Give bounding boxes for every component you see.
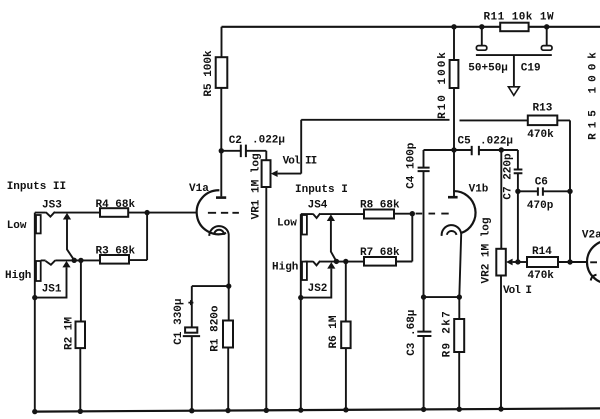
wire V1b cathode down bbox=[459, 234, 461, 410]
wire R13 right down bbox=[557, 120, 570, 262]
wire Inputs II low jack line bbox=[34, 213, 36, 412]
svg-text:JS2: JS2 bbox=[308, 283, 328, 295]
capacitor C1 plus plate bbox=[185, 327, 197, 332]
wire V2a grid dash bbox=[590, 261, 597, 263]
resistor R1 bbox=[223, 321, 233, 348]
capacitor C4 bbox=[418, 168, 430, 172]
tube V1b envelope bbox=[453, 191, 475, 233]
svg-text:Low: Low bbox=[7, 220, 27, 232]
capacitor C5 bbox=[472, 146, 479, 155]
resistor R2 bbox=[76, 322, 86, 349]
resistor R8 bbox=[364, 210, 394, 219]
wire C2 left bbox=[221, 150, 240, 152]
wire JS1 switch to ground line bbox=[35, 267, 67, 297]
node C6 right bbox=[567, 189, 572, 194]
svg-text:High: High bbox=[5, 270, 31, 282]
wire bottom ground rail bbox=[35, 408, 600, 411]
wire V1a grid dashes bbox=[208, 212, 239, 214]
wire C2 to VR1 bbox=[246, 151, 266, 160]
wiper arrow VR2 bbox=[506, 259, 513, 266]
svg-text:VR1 1M log: VR1 1M log bbox=[250, 153, 262, 219]
capacitor C1 bottom plate bbox=[183, 335, 200, 337]
wire JS3 switch bbox=[67, 220, 74, 261]
svg-text:C4 100p: C4 100p bbox=[406, 142, 418, 189]
resistor R9 bbox=[454, 319, 464, 352]
svg-text:JS3: JS3 bbox=[42, 200, 62, 212]
wire VR2 wiper to R14 bbox=[513, 261, 527, 263]
svg-text:C6: C6 bbox=[535, 177, 548, 189]
resistor R14 bbox=[527, 257, 558, 267]
capacitor C7 bbox=[514, 170, 523, 174]
wire C3 branch bbox=[424, 297, 460, 410]
cathode V1b curl bbox=[442, 225, 462, 236]
jack JS2 socket bbox=[302, 262, 307, 280]
node wiper C7 junction bbox=[515, 259, 520, 264]
resistor R11 bbox=[500, 23, 528, 32]
wire JS2 switch to ground line bbox=[301, 269, 332, 298]
wire JS4 switch bbox=[331, 221, 337, 261]
svg-text:.022µ: .022µ bbox=[480, 136, 513, 148]
svg-text:JS1: JS1 bbox=[42, 283, 62, 295]
ground bbox=[508, 87, 519, 96]
cathode V1a curl bbox=[209, 226, 228, 236]
svg-text:.022µ: .022µ bbox=[252, 134, 285, 146]
node V1a grid bbox=[144, 210, 149, 215]
wire Inputs I low jack line bbox=[300, 214, 302, 410]
switch arrow JS2 bbox=[327, 262, 335, 269]
node V1b anode junction bbox=[451, 147, 456, 152]
potentiometer VR1 bbox=[262, 160, 271, 187]
resistor R6 bbox=[341, 322, 350, 349]
svg-text:JS4: JS4 bbox=[308, 200, 328, 212]
svg-text:470p: 470p bbox=[527, 200, 554, 212]
wire V1b grid dashes bbox=[416, 213, 449, 215]
tube V2a envelope bbox=[587, 241, 600, 284]
wire VR2 top bbox=[500, 150, 502, 249]
node V1b grid bbox=[410, 211, 415, 216]
wire C6 left bbox=[518, 190, 538, 192]
tube V1a envelope bbox=[197, 190, 226, 234]
wire JS2 tip bbox=[305, 261, 364, 266]
wire R5 anode line V1a bbox=[220, 27, 222, 197]
resistor R4 bbox=[100, 208, 128, 217]
wire top B+ rail bbox=[222, 26, 600, 28]
resistor R7 bbox=[364, 257, 396, 266]
svg-text:Inputs I: Inputs I bbox=[295, 184, 348, 196]
svg-text:50+50µ: 50+50µ bbox=[468, 63, 508, 75]
wire VR2 bottom to ground bbox=[500, 276, 502, 410]
svg-text:R7 68k: R7 68k bbox=[360, 247, 400, 259]
svg-text:R3 68k: R3 68k bbox=[96, 246, 136, 258]
wire C1 branch bbox=[192, 286, 229, 411]
svg-text:R8 68k: R8 68k bbox=[360, 200, 400, 212]
wire JS3 tip bbox=[35, 212, 100, 217]
node ground rail junctions bbox=[32, 409, 37, 414]
wire C4 top bbox=[424, 150, 455, 167]
svg-text:R15 100k: R15 100k bbox=[588, 47, 600, 140]
wire R14 right bbox=[558, 261, 587, 263]
wire R6 bbox=[345, 262, 347, 411]
wire R10 anode line V1b bbox=[453, 27, 455, 196]
wiper arrow VR1 bbox=[271, 170, 278, 177]
jack JS1 socket bbox=[36, 261, 41, 281]
svg-text:R9 2k7: R9 2k7 bbox=[442, 310, 454, 357]
wire R8 right join bbox=[394, 214, 412, 262]
node V1a cathode bbox=[226, 283, 231, 288]
node JS3 switch joins high wire bbox=[72, 258, 77, 263]
wire VR1 bottom to ground bbox=[265, 187, 267, 411]
wire C5 left bbox=[454, 149, 471, 151]
wire V1a grid bbox=[147, 212, 197, 214]
svg-text:R14: R14 bbox=[532, 246, 552, 258]
capacitor C3 bbox=[417, 332, 431, 336]
svg-text:VR2 1M log: VR2 1M log bbox=[481, 217, 493, 283]
svg-text:R11 10k 1W: R11 10k 1W bbox=[484, 11, 555, 23]
switch arrow JS3 bbox=[63, 213, 71, 220]
svg-text:R13: R13 bbox=[533, 103, 553, 115]
resistor R10 bbox=[450, 60, 459, 88]
wire R4 right join bbox=[128, 213, 147, 261]
capacitor C6 bbox=[538, 187, 543, 195]
svg-text:R5 100k: R5 100k bbox=[203, 50, 215, 97]
capacitor C19 common plate bbox=[476, 54, 552, 56]
wire V1a cathode down bbox=[227, 234, 230, 411]
wire JS1 tip bbox=[41, 260, 100, 265]
resistor R5 bbox=[216, 57, 228, 88]
plate bar V1b bbox=[448, 196, 458, 199]
node C19 right bbox=[544, 24, 549, 29]
node R6 top bbox=[343, 259, 348, 264]
node C3 top bbox=[421, 294, 426, 299]
wire to C7 bbox=[501, 150, 518, 169]
wire C4 bottom bbox=[423, 171, 425, 297]
node JS2 ground bbox=[298, 295, 303, 300]
cathode V2a curl part bbox=[591, 275, 597, 281]
capacitor C19 right can bbox=[541, 46, 552, 51]
svg-text:R2 1M: R2 1M bbox=[64, 317, 76, 350]
wire R2 bbox=[79, 260, 82, 411]
svg-text:Vol II: Vol II bbox=[283, 156, 317, 168]
node R2 top bbox=[78, 258, 83, 263]
node JS1 ground bbox=[32, 295, 37, 300]
wire JS4 tip bbox=[301, 213, 364, 218]
node V1a anode junction bbox=[219, 148, 224, 153]
node V1b cathode bbox=[457, 294, 462, 299]
svg-text:V1a: V1a bbox=[189, 183, 209, 195]
node JS4 switch joins high wire bbox=[334, 259, 339, 264]
capacitor C19 left can bbox=[476, 46, 486, 51]
polarity plus C1 bbox=[188, 300, 193, 305]
svg-text:V2a: V2a bbox=[582, 230, 600, 242]
wire C7 bottom bbox=[517, 173, 519, 262]
svg-text:V1b: V1b bbox=[469, 184, 489, 196]
svg-text:470k: 470k bbox=[528, 270, 555, 282]
svg-text:C3 .68µ: C3 .68µ bbox=[406, 310, 418, 356]
svg-text:R1 820o: R1 820o bbox=[210, 305, 222, 352]
svg-text:R10 100k: R10 100k bbox=[437, 50, 449, 119]
wire C5 right bbox=[479, 149, 501, 151]
node R10 top rail bbox=[451, 24, 456, 29]
svg-text:C19: C19 bbox=[521, 63, 541, 75]
svg-text:Inputs II: Inputs II bbox=[7, 181, 66, 193]
wire C19 stem bbox=[513, 55, 515, 87]
node R14 right bbox=[567, 259, 572, 264]
svg-text:C1 330µ: C1 330µ bbox=[173, 298, 185, 344]
node C19 left bbox=[479, 24, 484, 29]
resistor R13 bbox=[528, 116, 558, 126]
switch arrow JS1 bbox=[62, 261, 70, 268]
svg-text:470k: 470k bbox=[527, 129, 554, 141]
svg-text:Vol I: Vol I bbox=[503, 285, 531, 297]
potentiometer VR2 bbox=[496, 249, 506, 276]
svg-text:Low: Low bbox=[277, 218, 297, 230]
svg-text:C7 220p: C7 220p bbox=[503, 153, 515, 200]
svg-text:C5: C5 bbox=[458, 136, 472, 148]
svg-text:R4 68k: R4 68k bbox=[96, 199, 136, 211]
node C7 C6 junction bbox=[515, 189, 520, 194]
svg-text:C2: C2 bbox=[229, 135, 242, 147]
jack JS3 socket bbox=[36, 215, 41, 233]
svg-text:R6 1M: R6 1M bbox=[328, 315, 340, 348]
switch arrow JS4 bbox=[327, 214, 335, 221]
resistor R3 bbox=[100, 255, 129, 264]
wire VR1 wiper to R13 bbox=[278, 120, 528, 174]
plate bar V1a bbox=[216, 196, 226, 199]
jack JS4 socket bbox=[302, 215, 307, 235]
node C5 right junction bbox=[499, 147, 504, 152]
wire C19 leads bbox=[482, 27, 547, 46]
svg-text:High: High bbox=[272, 262, 298, 274]
wire C6 right bbox=[543, 190, 570, 192]
capacitor C2 bbox=[241, 145, 246, 158]
